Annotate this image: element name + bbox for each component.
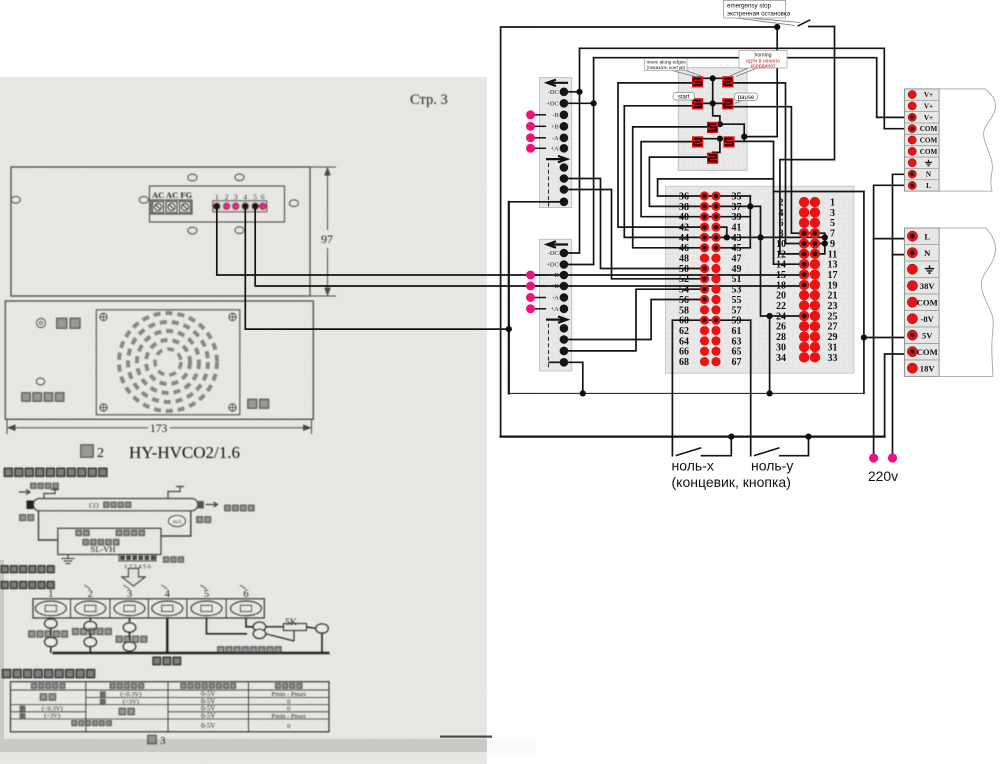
svg-text:66: 66 — [679, 347, 689, 358]
svg-text:50: 50 — [679, 264, 689, 275]
svg-text:-A: -A — [552, 135, 559, 142]
wire +DC / V+ net — [568, 102, 594, 104]
terminal block TB1 (V+ / COM / N / L) — [904, 89, 939, 191]
svg-text:35: 35 — [732, 191, 742, 202]
svg-text:29: 29 — [828, 332, 838, 343]
wire driver Y pulse/dir to pins 54,56 — [568, 300, 706, 340]
svg-text:(показать контур): (показать контур) — [647, 65, 686, 71]
wire button3 left to pins 46-45 — [633, 127, 707, 248]
svg-text:0-5V: 0-5V — [201, 712, 215, 720]
svg-text:Pmin - Pmax: Pmin - Pmax — [272, 713, 307, 720]
svg-text:-A: -A — [552, 295, 559, 302]
caption 图2 HY-HVCO2/1.6 (scan) — [80, 444, 94, 458]
svg-text:(концевик, кнопка): (концевик, кнопка) — [672, 474, 791, 490]
svg-text:28: 28 — [776, 332, 786, 343]
svg-text:59: 59 — [732, 316, 742, 327]
svg-text:+B: +B — [551, 283, 559, 290]
svg-text:30: 30 — [776, 342, 786, 353]
callout homing — [730, 68, 757, 77]
svg-text:25: 25 — [828, 311, 838, 322]
fan panel (scan) — [5, 301, 313, 419]
wire pin 41 jog to 43 — [716, 227, 727, 237]
svg-text:68: 68 — [679, 357, 689, 368]
svg-text:ноль-у: ноль-у — [751, 458, 793, 474]
scanned page background — [0, 77, 492, 764]
svg-text:33: 33 — [828, 353, 838, 364]
svg-text:+DC: +DC — [546, 101, 558, 108]
heading 电源和激光器的接线图 (scan) — [4, 468, 14, 478]
wire emergency stop net (mains L to switch) — [501, 27, 778, 437]
heading 控制端子含义及功能 (scan) — [2, 669, 12, 679]
big down arrow (scan) — [122, 569, 145, 587]
svg-text:41: 41 — [732, 222, 742, 233]
svg-text:62: 62 — [679, 326, 689, 337]
motor phase terminals driver X (pink) — [535, 114, 547, 116]
svg-text:43: 43 — [732, 233, 742, 244]
svg-text:3: 3 — [830, 208, 835, 219]
svg-text:L: L — [924, 231, 930, 241]
svg-text:(<0.3V): (<0.3V) — [42, 706, 63, 713]
wire bracket pins 7-11 — [815, 233, 825, 254]
svg-text:60: 60 — [679, 316, 689, 327]
svg-text:54: 54 — [679, 285, 689, 296]
svg-text:Стр. 3: Стр. 3 — [410, 92, 448, 108]
wire mains bottom bus to TB2 COM — [501, 436, 885, 438]
svg-text:2: 2 — [97, 446, 104, 461]
svg-text:37: 37 — [732, 202, 742, 213]
wire TTL-L: page pin5 to pin 19 — [255, 209, 804, 286]
svg-text:21: 21 — [828, 291, 838, 302]
svg-text:45: 45 — [732, 243, 742, 254]
svg-text:6: 6 — [779, 218, 784, 229]
svg-text:22: 22 — [776, 301, 786, 312]
svg-text:10: 10 — [776, 239, 786, 250]
svg-text:4: 4 — [243, 193, 247, 202]
svg-text:+A: +A — [551, 146, 560, 153]
svg-text:18V: 18V — [920, 363, 936, 373]
svg-text:40: 40 — [679, 212, 689, 223]
control connector pins 1-6 (scan) — [213, 201, 267, 212]
caption 图3 (scan) — [147, 735, 157, 745]
svg-text:(<0.3V): (<0.3V) — [120, 691, 141, 698]
callout move along edges — [672, 71, 701, 78]
svg-text:Pmin - Pmax: Pmin - Pmax — [272, 691, 307, 698]
stepper driver Y internals — [547, 241, 568, 247]
laser tube diagram (scan) — [30, 483, 37, 490]
control connector on PSU (scan) — [119, 555, 156, 562]
svg-text:5: 5 — [253, 193, 257, 202]
power supply top panel (scan) — [11, 167, 310, 296]
terminal strip wiring (scan) — [51, 618, 330, 653]
wire button1 right to pins 10-9 — [733, 83, 825, 244]
wire ground bus loop (pause btn, pin13, pin36 row, 5V, drivers common) — [773, 141, 775, 264]
callout pause — [735, 101, 742, 104]
dimension 97 (scan) — [310, 167, 336, 296]
svg-text:+B: +B — [551, 124, 559, 131]
220v supply terminals (pink) — [869, 453, 878, 462]
svg-text:220v: 220v — [868, 468, 898, 484]
svg-text:52: 52 — [679, 274, 689, 285]
svg-text:2: 2 — [779, 198, 784, 209]
svg-text:27: 27 — [828, 322, 838, 333]
svg-text:COM: COM — [917, 297, 938, 307]
svg-text:3: 3 — [234, 193, 238, 202]
svg-text:18: 18 — [776, 280, 786, 291]
connector DB right pin group (pins 1-34) — [779, 197, 836, 209]
svg-text:55: 55 — [732, 295, 742, 306]
wire driver X pulse/dir to pins 50,52 — [568, 179, 706, 269]
svg-text:+A: +A — [551, 306, 560, 313]
stepper driver X box — [540, 78, 572, 208]
svg-text:HY-HVCO2/1.6: HY-HVCO2/1.6 — [129, 443, 240, 462]
ground symbol (scan PSU) — [62, 555, 75, 564]
svg-text:8: 8 — [779, 229, 784, 240]
switch ноль-y — [755, 448, 779, 455]
svg-text:61: 61 — [732, 326, 742, 337]
stepper driver Y box — [540, 239, 572, 371]
svg-text:start: start — [678, 94, 690, 100]
svg-text:36: 36 — [679, 191, 689, 202]
svg-text:COM: COM — [920, 137, 938, 145]
svg-text:pause: pause — [738, 95, 755, 101]
svg-text:+DC: +DC — [546, 262, 558, 269]
svg-text:14: 14 — [776, 260, 786, 271]
svg-text:58: 58 — [679, 305, 689, 316]
dimension 173 (scan) — [7, 419, 312, 434]
svg-text:5: 5 — [830, 218, 835, 229]
callout emergency stop — [736, 18, 800, 26]
connector pin field box — [665, 186, 854, 373]
svg-text:23: 23 — [828, 301, 838, 312]
svg-text:3: 3 — [160, 735, 166, 747]
svg-text:67: 67 — [732, 357, 742, 368]
text 端子定义如下 (scan) — [1, 565, 9, 573]
svg-text:-B: -B — [552, 272, 558, 279]
svg-text:4: 4 — [779, 208, 784, 219]
wire button1 left to pin 42 — [618, 83, 706, 227]
svg-text:-DC: -DC — [548, 89, 559, 96]
svg-text:97: 97 — [321, 232, 333, 246]
svg-text:0-5V: 0-5V — [201, 722, 215, 730]
svg-text:48: 48 — [679, 254, 689, 265]
svg-text:42: 42 — [679, 222, 689, 233]
svg-text:1: 1 — [830, 198, 835, 209]
wire TTL-H: page pin1 to pin 15 — [217, 209, 804, 275]
svg-text:L: L — [926, 182, 931, 190]
wire N net — [893, 174, 912, 457]
wire button2 left to pins 44-43 (long row 43 line) — [624, 106, 825, 238]
callout start — [688, 100, 696, 103]
svg-text:V+: V+ — [924, 91, 933, 99]
svg-text:38V: 38V — [920, 281, 936, 291]
stepper driver X internals — [547, 80, 568, 86]
svg-text:SL-VH: SL-VH — [90, 544, 115, 554]
svg-text:mA: mA — [173, 519, 182, 526]
svg-text:-DC: -DC — [548, 250, 559, 257]
wire -DC / COM net — [568, 91, 580, 93]
svg-text:51: 51 — [732, 274, 742, 285]
wire row 60 loop to limit switches — [672, 319, 750, 321]
terminal block TB1 continuation (torn shape) — [939, 89, 995, 191]
labels TTL inputs (scan) — [28, 630, 35, 637]
control buttons (red) — [692, 76, 703, 87]
terminal block TB2 continuation (torn shape) — [939, 228, 995, 376]
terminal block TB2 (L N 38V COM -8V 5V COM 18V) — [904, 228, 939, 376]
svg-text:-8V: -8V — [921, 314, 935, 324]
svg-text:move along edges: move along edges — [647, 60, 687, 66]
wire button2 right to pins 8-7 — [733, 107, 815, 234]
motor phase terminals driver Y (pink) — [535, 274, 547, 276]
svg-text:64: 64 — [679, 336, 689, 347]
svg-text:12: 12 — [776, 249, 786, 260]
wire button row3/4 junction — [743, 124, 745, 141]
svg-text:47: 47 — [732, 254, 742, 265]
svg-text:11: 11 — [828, 249, 837, 260]
svg-text:31: 31 — [828, 342, 838, 353]
svg-text:6: 6 — [261, 193, 265, 202]
wire button5 left to pins 38-37 and down to pin 25 — [649, 157, 760, 206]
svg-text:57: 57 — [732, 305, 742, 316]
svg-text:65: 65 — [732, 347, 742, 358]
switch ноль-x — [677, 448, 701, 455]
wire button4 left to pins 40-39 — [641, 142, 750, 217]
svg-text:56: 56 — [679, 295, 689, 306]
svg-text:63: 63 — [732, 336, 742, 347]
svg-text:(>3V): (>3V) — [123, 698, 139, 705]
svg-text:V+: V+ — [924, 114, 933, 122]
svg-text:34: 34 — [776, 353, 786, 364]
svg-text:координат: координат — [751, 64, 776, 70]
svg-text:emergensy stop: emergensy stop — [727, 3, 772, 10]
svg-text:1: 1 — [215, 193, 219, 202]
fan grille (scan) — [119, 313, 217, 411]
svg-text:17: 17 — [828, 270, 838, 281]
wire L net — [874, 185, 912, 457]
svg-text:-B: -B — [552, 112, 558, 119]
table 图3 (scan) — [11, 682, 330, 732]
svg-text:COM: COM — [917, 347, 938, 357]
wire emergency switched side to pin 12 — [780, 27, 835, 254]
svg-text:9: 9 — [830, 239, 835, 250]
junction dots — [774, 24, 780, 30]
svg-text:CO: CO — [89, 502, 99, 510]
svg-text:5V: 5V — [922, 330, 933, 340]
svg-text:V+: V+ — [924, 103, 933, 111]
wire buttons center column — [703, 77, 722, 79]
svg-text:46: 46 — [679, 243, 689, 254]
svg-text:44: 44 — [679, 233, 689, 244]
svg-text:N: N — [926, 171, 932, 179]
svg-text:COM: COM — [920, 125, 938, 133]
svg-text:20: 20 — [776, 291, 786, 302]
switch emergency stop SW1 — [798, 20, 809, 26]
svg-text:38: 38 — [679, 202, 689, 213]
svg-text:19: 19 — [828, 280, 838, 291]
svg-text:(>3V): (>3V) — [44, 713, 60, 720]
svg-text:2: 2 — [225, 193, 229, 202]
svg-text:ноль-x: ноль-x — [672, 458, 714, 474]
svg-text:15: 15 — [776, 270, 786, 281]
connector DB-68 left pin group (pins 35-68) — [679, 191, 742, 202]
svg-text:экстренная остановка: экстренная остановка — [727, 11, 791, 18]
svg-text:N: N — [924, 248, 931, 258]
svg-text:13: 13 — [828, 260, 838, 271]
svg-text:173: 173 — [150, 423, 168, 435]
svg-text:7: 7 — [830, 229, 835, 240]
svg-text:24: 24 — [776, 311, 786, 322]
svg-text:AC AC FG: AC AC FG — [152, 190, 193, 200]
svg-text:39: 39 — [732, 212, 742, 223]
svg-text:49: 49 — [732, 264, 742, 275]
svg-text:53: 53 — [732, 285, 742, 296]
svg-text:26: 26 — [776, 322, 786, 333]
control button box — [678, 68, 747, 171]
svg-text:COM: COM — [920, 148, 938, 156]
